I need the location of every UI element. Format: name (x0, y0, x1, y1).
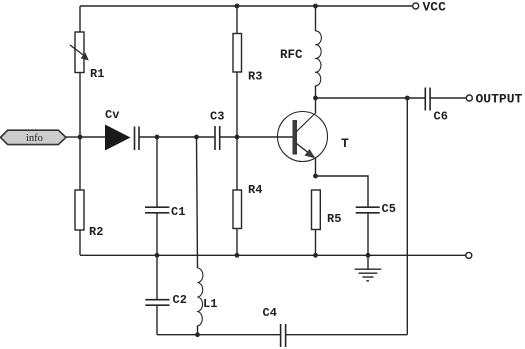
node junction bus R4 (235, 253, 240, 258)
capacitor C4 plates (280, 324, 282, 347)
wire RFC bottom (315, 86, 317, 98)
wire C5 to bus (367, 213, 369, 256)
wire Cv to C3 (139, 136, 215, 138)
wire C3 to base (220, 136, 293, 138)
wire C2 branch (156, 255, 158, 299)
svg-text:C4: C4 (263, 306, 277, 320)
varactor Cv capacitor plates (134, 127, 136, 151)
svg-text:C2: C2 (173, 293, 187, 307)
svg-text:C5: C5 (382, 202, 396, 216)
svg-text:info: info (26, 133, 43, 144)
node junction output feedback (405, 96, 410, 101)
capacitor C6 plates (424, 88, 426, 111)
svg-text:C3: C3 (210, 110, 224, 124)
inductor L1 coil (197, 268, 203, 326)
node junction bus ground (366, 253, 371, 258)
VCC terminal (413, 3, 419, 9)
transistor emitter diagonal (297, 144, 315, 158)
info connector hexagon (1, 130, 67, 144)
wire emitter down (315, 158, 317, 176)
capacitor C5 plates (356, 206, 380, 208)
wire top rail (80, 5, 413, 7)
inductor RFC coil (315, 31, 322, 86)
OUTPUT terminal (466, 95, 472, 101)
svg-text:R1: R1 (90, 67, 104, 81)
svg-text:VCC: VCC (423, 0, 447, 15)
wire C6 to OUTPUT (430, 97, 466, 99)
wire C1 to bus (156, 213, 158, 256)
wire node A to Cv anode (80, 136, 105, 138)
svg-text:C6: C6 (434, 110, 448, 124)
node junction top R3 (235, 4, 240, 9)
node junction top RFC (313, 4, 318, 9)
wire left branch vertical (79, 6, 81, 190)
wire info to node A (66, 136, 80, 138)
node junction emitter (313, 174, 318, 179)
node junction C1 branch (155, 135, 160, 140)
node junction L1 branch (194, 135, 199, 140)
node junction collector (313, 96, 318, 101)
svg-text:R4: R4 (248, 183, 262, 197)
node A junction (78, 135, 83, 140)
wire bus ground rail (80, 254, 466, 256)
wire R5 bottom (315, 230, 317, 256)
wire emitter to C5 (316, 176, 369, 207)
bus terminal right (466, 252, 472, 258)
transistor emitter arrowhead (305, 149, 316, 159)
wire C1 branch vertical upper (156, 137, 158, 207)
svg-text:L1: L1 (203, 297, 217, 311)
capacitor C3 plates (214, 126, 216, 150)
svg-text:T: T (341, 136, 349, 151)
wire bottom rail (157, 334, 281, 336)
wire R3/R4 branch vertical (236, 6, 238, 190)
resistor R3 (233, 34, 242, 73)
wire collector node to C6 (316, 97, 426, 99)
wire L1 branch vertical (197, 137, 198, 268)
svg-text:OUTPUT: OUTPUT (476, 92, 523, 107)
resistor R2 (75, 190, 84, 230)
wire collector up (315, 98, 317, 113)
transistor T circle (278, 112, 328, 162)
node junction base line / R3R4 (235, 135, 240, 140)
transistor collector diagonal (297, 113, 317, 132)
svg-text:C1: C1 (171, 205, 185, 219)
wire feedback vertical right (406, 98, 408, 335)
svg-text:RFC: RFC (280, 48, 303, 62)
svg-text:Cv: Cv (105, 108, 119, 122)
wire C4 to feedback line (286, 334, 408, 336)
wire L1 bottom (197, 326, 199, 335)
resistor R4 (233, 190, 242, 229)
svg-text:R2: R2 (89, 225, 103, 239)
wire C2 to bottom rail (156, 305, 158, 335)
capacitor C2 plates (145, 299, 169, 301)
resistor R5 (312, 190, 321, 230)
varactor diode Cv triangle (105, 125, 131, 151)
resistor R1 (variable, with arrow) (75, 32, 84, 73)
capacitor C1 plates (145, 206, 169, 208)
node junction bus C1 (155, 253, 160, 258)
node junction bottom L1 (195, 332, 200, 337)
ground (367, 255, 369, 269)
svg-text:R5: R5 (327, 212, 341, 226)
transistor base bar (293, 120, 298, 155)
svg-text:R3: R3 (248, 70, 262, 84)
wire RFC branch vertical (315, 6, 317, 31)
node junction bus R5 (313, 253, 318, 258)
